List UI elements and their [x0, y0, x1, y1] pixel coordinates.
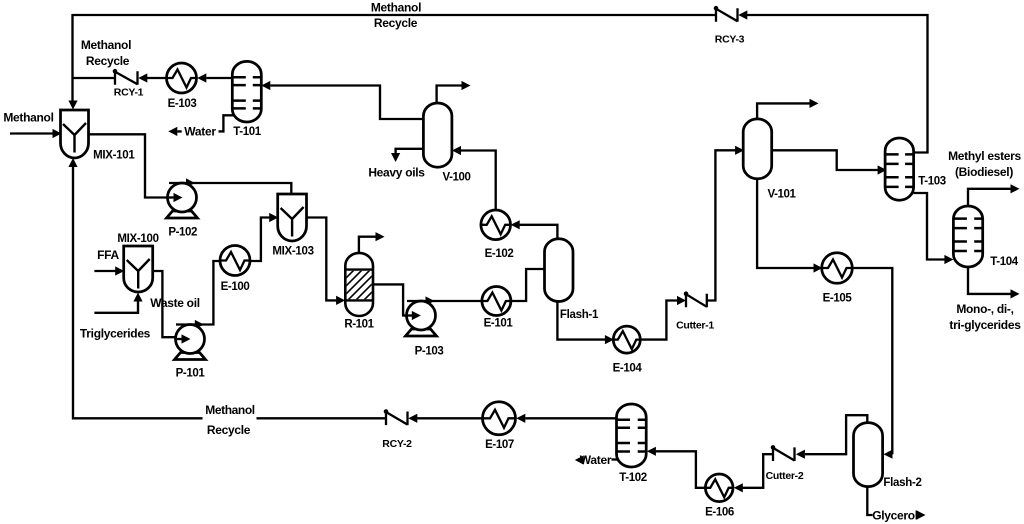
wire Methanol feed into MIX-101 — [10, 132, 53, 134]
wire Flash-1 bottoms to E-104 — [557, 301, 605, 340]
column T-103 with trays — [885, 138, 946, 200]
wire drop into MIX-101 top inlet — [71, 14, 73, 102]
cutter operator Cutter-1 — [684, 291, 707, 307]
wire V-100 liquid to T-101 feed — [270, 86, 423, 120]
svg-text:E-104: E-104 — [613, 363, 643, 375]
column T-102 with trays — [617, 404, 647, 484]
heat exchanger E-105 — [822, 253, 853, 305]
wire E-100 outlet to MIX-103 — [250, 218, 270, 262]
svg-text:Methanol: Methanol — [371, 1, 421, 15]
svg-text:RCY-3: RCY-3 — [715, 34, 745, 46]
heat exchanger E-103 — [167, 63, 197, 110]
svg-text:Recycle: Recycle — [207, 423, 251, 437]
vessel V-101 — [743, 119, 796, 201]
wire methanol-recycle top header from RCY-3 to MIX-101 drop — [73, 14, 717, 16]
svg-text:V-100: V-100 — [442, 172, 470, 184]
svg-text:T-101: T-101 — [233, 126, 261, 138]
wire V-101 side draw to T-103 feed — [771, 150, 878, 170]
svg-text:P-101: P-101 — [176, 368, 206, 380]
svg-text:MIX-100: MIX-100 — [117, 233, 158, 245]
svg-text:T-103: T-103 — [918, 176, 945, 188]
svg-text:Mono-, di-,: Mono-, di-, — [956, 302, 1013, 316]
pump P-101 — [175, 325, 206, 380]
wire E-106 outlet to T-102 feed — [656, 451, 706, 488]
wire T-104 overhead Methyl esters product — [968, 189, 1011, 207]
wire Cutter-2 to E-106 — [743, 454, 773, 488]
svg-text:E-101: E-101 — [484, 318, 514, 330]
svg-text:E-107: E-107 — [485, 439, 514, 451]
svg-text:Recycle: Recycle — [374, 16, 418, 30]
svg-text:Water: Water — [580, 453, 612, 467]
wire FFA feed into MIX-100 — [94, 270, 115, 272]
arrow into RCY-3 — [738, 10, 747, 19]
wire RCY-1 outlet to MIX-101 drop junction — [73, 77, 116, 79]
wire P-103 discharge to E-101 — [407, 300, 483, 302]
svg-text:FFA: FFA — [97, 248, 119, 262]
label Methanol Recycle bottom line 1 — [203, 404, 257, 421]
cutter operator Cutter-2 — [771, 445, 795, 461]
wire Flash-2 bottoms to Glycerol label — [867, 486, 872, 515]
svg-text:(Biodiesel): (Biodiesel) — [955, 165, 1013, 179]
svg-text:E-105: E-105 — [823, 293, 853, 305]
svg-text:P-103: P-103 — [415, 346, 444, 358]
mixer MIX-100 — [124, 246, 153, 292]
wire Flash-1 overhead to E-102 — [520, 225, 558, 240]
svg-text:Flash-1: Flash-1 — [560, 309, 599, 321]
wire P-103 suction overlay into pump center — [404, 314, 412, 316]
svg-text:E-103: E-103 — [168, 98, 197, 110]
recycle operator RCY-1 — [113, 69, 138, 85]
wire E-103 outlet to RCY-1 — [147, 77, 168, 79]
wire V-100 vapor product — [437, 86, 462, 105]
wire P-101 discharge to E-100 — [176, 261, 221, 325]
vessel V-100 — [423, 103, 470, 184]
wire Cutter-1 to V-101 feed — [707, 150, 736, 300]
wire T-104 bottoms Mono- di- tri-glycerides product — [968, 266, 1011, 294]
svg-text:Water: Water — [184, 124, 216, 138]
wire MIX-101 outlet to P-102 suction — [88, 134, 174, 197]
wire Water arrow at T-102 — [575, 455, 584, 464]
svg-text:E-102: E-102 — [485, 248, 514, 260]
wire E-104 outlet to Cutter-1 — [641, 301, 678, 340]
wire methanol-recycle top header right segment from T-103 riser — [747, 15, 928, 153]
wire V-100 bottoms to Heavy oils arrow — [396, 149, 424, 153]
svg-text:R-101: R-101 — [344, 319, 374, 331]
heat exchanger E-102 — [481, 210, 513, 260]
wire RCY-2 to MIX-101 bottom inlet (methanol recycle) — [73, 167, 386, 418]
recycle operator RCY-3 — [714, 6, 738, 22]
svg-text:RCY-2: RCY-2 — [382, 438, 412, 450]
svg-text:T-104: T-104 — [990, 256, 1018, 268]
pump P-103 — [406, 301, 444, 358]
svg-text:Glycerol: Glycerol — [872, 509, 918, 523]
recycle operator RCY-2 — [384, 409, 408, 425]
svg-text:Cutter-1: Cutter-1 — [676, 320, 714, 332]
svg-text:Methanol: Methanol — [3, 111, 53, 125]
heat exchanger E-107 — [483, 402, 516, 451]
wire E-101 outlet to Flash-1 — [511, 269, 545, 301]
svg-text:Flash-2: Flash-2 — [883, 477, 921, 489]
wire P-102 suction overlay into pump center — [169, 196, 175, 198]
wire R-101 outlet to P-103 suction — [373, 284, 412, 315]
svg-text:Cutter-2: Cutter-2 — [766, 470, 804, 482]
wire E-102 outlet up to V-100 — [461, 151, 496, 211]
mixer MIX-101 — [61, 110, 89, 158]
wire T-101 water draw to Water arrow — [177, 115, 233, 131]
svg-text:Recycle: Recycle — [86, 54, 130, 68]
wire MIX-103 outlet to R-101 — [307, 218, 337, 301]
pump P-102 — [167, 183, 198, 239]
svg-text:Triglycerides: Triglycerides — [80, 327, 151, 341]
svg-text:V-101: V-101 — [767, 189, 796, 201]
svg-text:Methanol: Methanol — [81, 38, 131, 52]
column T-104 with trays — [953, 206, 1018, 268]
wire R-101 vapor vent — [359, 237, 376, 255]
wire T-103 bottoms to T-104 feed — [914, 193, 945, 260]
reactor R-101 with packed bed — [322, 253, 404, 331]
svg-text:MIX-101: MIX-101 — [93, 150, 135, 162]
wire Glycerol product arrow — [917, 510, 926, 519]
wire P-101 suction overlay into pump center — [177, 338, 182, 340]
svg-text:MIX-103: MIX-103 — [272, 246, 313, 258]
svg-text:Methyl esters: Methyl esters — [948, 149, 1021, 163]
heat exchanger E-100 — [220, 246, 250, 294]
wire V-101 bottoms to E-105 — [757, 178, 814, 268]
vessel Flash-2 — [854, 423, 883, 487]
svg-text:Waste oil: Waste oil — [150, 296, 200, 310]
vessel Flash-1 — [545, 239, 574, 302]
heat exchanger E-104 — [613, 326, 643, 374]
svg-text:Methanol: Methanol — [205, 403, 255, 417]
wire V-101 vapor product arrow — [757, 103, 809, 120]
wire T-101 overhead to E-103 — [206, 77, 232, 79]
wire T-102 water draw stub — [612, 458, 619, 460]
svg-text:E-106: E-106 — [705, 507, 734, 519]
mixer MIX-103 — [278, 194, 307, 241]
wire E-105 outlet down to Flash-2 — [852, 268, 892, 454]
wire Flash-2 overhead to Cutter-2 — [805, 415, 867, 454]
wire T-102 overhead to E-107 — [525, 417, 617, 419]
wire E-107 outlet to RCY-2 — [417, 417, 482, 419]
svg-text:T-102: T-102 — [619, 472, 646, 484]
svg-text:Heavy oils: Heavy oils — [368, 166, 425, 180]
svg-text:tri-glycerides: tri-glycerides — [949, 318, 1021, 332]
wire P-102 discharge to MIX-103 top — [169, 183, 291, 196]
heat exchanger E-106 — [705, 474, 734, 519]
wire Triglycerides feed into MIX-100 bottom — [94, 301, 138, 313]
svg-text:E-100: E-100 — [221, 281, 250, 293]
wire MIX-100 outlet (Waste oil) to P-101 suction — [153, 271, 182, 337]
column T-101 with trays — [232, 61, 261, 138]
heat exchanger E-101 — [482, 287, 513, 330]
svg-text:P-102: P-102 — [168, 227, 197, 239]
svg-text:RCY-1: RCY-1 — [114, 87, 144, 99]
